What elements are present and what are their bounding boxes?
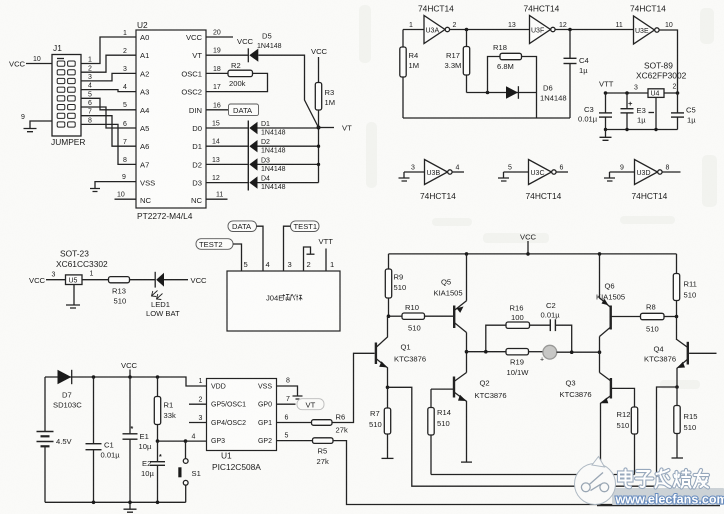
node R17/D6 xyxy=(486,91,490,95)
wire U2 D2 xyxy=(206,163,248,165)
node gnd rail E3 xyxy=(625,128,628,131)
wire pin1 xyxy=(325,249,327,272)
wire osc bottom rail xyxy=(403,117,570,119)
wire U3A out to U3F xyxy=(450,29,530,31)
wire U2 D1 xyxy=(206,145,248,147)
resistor R13 510 xyxy=(109,277,130,306)
scan ghost smudges xyxy=(359,5,717,389)
node bottom E1 xyxy=(128,501,132,505)
wire R14 R12 tie xyxy=(431,474,635,476)
ground J1 pin9 xyxy=(24,129,37,132)
wire U3F out to U3E xyxy=(555,29,633,31)
node VTT left xyxy=(604,91,608,95)
node motor right xyxy=(598,350,602,354)
wire J1-7 to U2 A6 xyxy=(81,116,136,147)
transistor Q4 KTC3876 xyxy=(644,317,688,388)
U2 pin numbers left xyxy=(117,30,127,199)
diode D5 1N4148 xyxy=(248,32,281,63)
node E3 top xyxy=(625,91,629,95)
ground VTT filter xyxy=(600,130,612,141)
wire U5 to R13 xyxy=(82,279,109,281)
stub U2 NC pin10 xyxy=(115,198,137,200)
J1 wire numbers xyxy=(88,57,92,125)
wire feedback bottom xyxy=(467,92,537,94)
node rail C1 xyxy=(92,375,96,379)
capacitor C3 0.01u xyxy=(578,93,612,130)
wire power bottom rail xyxy=(45,501,186,503)
resistor R7 510 xyxy=(369,387,391,458)
watermark band xyxy=(612,488,724,505)
wire VCC tick xyxy=(129,370,131,378)
wire power top rail xyxy=(45,377,207,386)
wire VTT gnd rail xyxy=(606,129,678,131)
wire U2 VSS pin9 xyxy=(95,182,136,188)
ground U2 VSS xyxy=(90,189,100,192)
wire pin2 xyxy=(304,247,311,271)
wire R16 branch xyxy=(486,325,506,352)
stub U2 pin16 DIN xyxy=(206,109,228,111)
wire J1-3 to U2 A2 xyxy=(81,73,136,81)
inverter U3A 74HCT14 xyxy=(418,4,454,44)
wire GP3 line xyxy=(158,440,207,442)
wire R19 line xyxy=(467,351,507,353)
wire D3 out xyxy=(258,163,319,165)
node R9 R10 xyxy=(387,314,391,318)
wire J1-8 to U2 A7 xyxy=(81,124,136,164)
inverter U3C 74HCT14 xyxy=(498,160,568,202)
node rail Q5 xyxy=(465,252,469,256)
diode D3 1N4148 xyxy=(249,157,285,173)
resistor R12 510 xyxy=(617,407,638,475)
wire TEST1 to pin3 xyxy=(284,226,291,271)
node rail E1 xyxy=(128,375,132,379)
node bottom C1 xyxy=(92,501,96,505)
node rail R1 xyxy=(156,375,160,379)
label TEST1 xyxy=(291,221,320,232)
wire diode bus xyxy=(318,128,320,183)
label minus E3 xyxy=(649,112,655,114)
wire U1 GP2 to R5 xyxy=(277,440,313,442)
regulator U4 SOT-89 XC62FP3002 xyxy=(636,61,687,81)
J1 labels xyxy=(9,43,85,147)
ground U1 VSS xyxy=(293,396,303,399)
wire R5 long bottom wire xyxy=(333,441,717,505)
node S1 branch xyxy=(184,439,188,443)
transistor Q6 KIA1505 xyxy=(596,282,625,337)
transistor Q3 KTC3876 xyxy=(560,373,611,467)
node C4 tap xyxy=(568,28,572,32)
resistor R19 10/1W xyxy=(506,349,529,378)
resistor R15 510 xyxy=(674,387,698,458)
diode D2 1N4148 xyxy=(249,139,285,155)
wire U3A input xyxy=(403,29,424,31)
watermark fan logo xyxy=(575,457,616,505)
ground power rail xyxy=(124,502,137,512)
wire U3E out down to U4 xyxy=(659,30,677,93)
stub U1 pin3 xyxy=(189,422,207,424)
node U4 out xyxy=(676,91,680,95)
wire R2 to OSC2 xyxy=(206,73,268,91)
inverter U3D 74HCT14 xyxy=(604,160,681,202)
resistor R3 1M xyxy=(315,57,335,128)
wire R13 to LED1 xyxy=(130,279,156,281)
label VT xyxy=(297,399,324,410)
node Q4 emitter xyxy=(675,385,679,389)
transistor Q1 KTC3876 xyxy=(376,316,426,387)
wire Q1 emitter to Q4 emitter xyxy=(388,387,678,486)
resistor R1 33k xyxy=(154,377,176,441)
stub U2 pin11 NC xyxy=(206,198,228,200)
U2 pin numbers right xyxy=(212,30,223,199)
node rail VCC xyxy=(526,252,530,256)
receiver board J04E xyxy=(227,271,340,331)
wire bridge VCC rail xyxy=(389,253,677,255)
detector U5 box xyxy=(66,275,83,285)
ground R7 xyxy=(382,457,394,459)
diode D4 1N4148 xyxy=(249,176,285,192)
ground pin2 xyxy=(307,253,315,255)
connector J1 xyxy=(52,55,81,137)
wire U2 D3 xyxy=(206,182,248,184)
inverter U3B 74HCT14 xyxy=(399,160,465,202)
ground Q3 emitter xyxy=(595,466,606,468)
inverter U3E 74HCT14 xyxy=(630,4,666,45)
wire R6 to Q1 base xyxy=(332,353,375,422)
node R1 bottom xyxy=(156,439,160,443)
node motor left xyxy=(465,350,469,354)
diode D1 1N4148 xyxy=(248,121,285,191)
node osc A xyxy=(465,28,469,32)
resistor R16 100 xyxy=(506,304,530,329)
IC U2 PT2272-M4/L4 xyxy=(136,20,206,221)
wire J1-2 to U2 A1 xyxy=(81,55,136,72)
ground U5 xyxy=(66,305,80,308)
label DATA xyxy=(229,104,259,116)
wire D1 out xyxy=(258,127,319,129)
paper noise overlay xyxy=(0,0,1,1)
wire U4 gnd pin xyxy=(655,97,657,129)
wire VCC tick bridge xyxy=(527,241,529,254)
transistor Q5 KIA1505 xyxy=(434,278,467,333)
wire Q6 base to R8 xyxy=(611,316,641,318)
ground Q2 emitter xyxy=(461,461,472,463)
resistor R2 200k xyxy=(228,61,253,88)
label DATA bottom xyxy=(228,221,257,232)
capacitor E2 10u electrolytic xyxy=(141,441,165,502)
resistor R4 1M xyxy=(400,30,419,119)
LED LED1 LOW BAT xyxy=(146,272,180,318)
wire DATA to pin4 xyxy=(257,226,264,271)
node gnd rail left xyxy=(604,128,607,131)
node R11 R8 xyxy=(675,315,679,319)
capacitor C5 1u xyxy=(671,93,696,130)
inverter U3F 74HCT14 xyxy=(524,4,560,44)
watermark text elecfans chinese xyxy=(619,470,708,488)
resistor R18 6.8M xyxy=(493,43,522,71)
label TEST2 xyxy=(196,239,233,250)
wire Q3 base to R12 xyxy=(611,388,635,407)
wire VCC to U5 xyxy=(46,279,66,281)
wire U1 VSS xyxy=(277,386,298,396)
wire Q4 base stub xyxy=(689,352,716,354)
stub U2 pin18 OSC1 xyxy=(206,72,228,74)
wire R18 branch left xyxy=(488,57,501,93)
stub U1 pin2 xyxy=(189,403,207,405)
wire J1-6 to U2 A5 xyxy=(81,107,136,128)
wire U2 pin19 VT xyxy=(206,54,248,56)
capacitor E1 10u electrolytic xyxy=(123,377,152,502)
node Q1 emitter xyxy=(386,386,390,390)
node C2 right xyxy=(570,350,574,354)
battery 4.5V xyxy=(37,377,73,502)
node R16 R19 xyxy=(484,350,488,354)
resistor R8 510 xyxy=(641,303,677,334)
motor M xyxy=(529,345,600,363)
capacitor C4 1u xyxy=(564,30,589,119)
MCU U1 PIC12C508A xyxy=(207,379,277,473)
wire TEST2 to pin5 xyxy=(233,244,242,271)
wire D2 out xyxy=(258,145,319,147)
detector U5 SOT-23 XC61CC3302 xyxy=(56,249,108,270)
resistor R10 510 xyxy=(389,303,454,333)
resistor R5 27k xyxy=(313,438,334,466)
switch S1 xyxy=(178,441,200,502)
resistor R14 510 xyxy=(428,389,451,474)
resistor R17 3.3M xyxy=(445,30,470,93)
wire bottom overlay across watermark xyxy=(597,505,720,507)
diode D7 SD103C xyxy=(53,370,82,410)
node gnd rail U4 xyxy=(654,128,657,131)
wire D5 to R3 node xyxy=(258,55,318,127)
node diode bus junctions xyxy=(317,126,321,167)
wire Q2 base xyxy=(431,388,454,390)
ground R15 xyxy=(672,457,684,459)
node bottom E2 xyxy=(156,501,160,505)
wire VT out xyxy=(319,127,335,129)
J1 pads xyxy=(57,61,75,127)
wire D4 out xyxy=(258,182,319,184)
diode D6 1N4148 xyxy=(506,84,567,103)
wire J1 pin10 VCC xyxy=(26,63,52,65)
wire bridge left vertical xyxy=(466,254,468,373)
wire bridge right vertical xyxy=(599,254,601,373)
wire J1 pin9 xyxy=(30,121,52,128)
resistor R11 510 xyxy=(673,254,697,317)
regulator U4 box xyxy=(648,89,664,98)
node rail Q6 xyxy=(598,252,602,256)
wire VTT rail xyxy=(606,92,649,94)
wire U5 gnd xyxy=(73,285,75,305)
wire U1 GP0 VT xyxy=(277,403,296,405)
wire U2 pin20 VCC xyxy=(206,36,233,38)
transistor Q2 KTC3876 xyxy=(454,373,507,462)
wire U2 D0 xyxy=(206,127,248,129)
resistor R9 510 xyxy=(385,254,406,316)
wire U4 out xyxy=(664,92,678,94)
wire LED1 to VCC xyxy=(164,279,188,281)
wire R18 to right side xyxy=(522,57,537,119)
wire U1 GP1 to R6 xyxy=(277,422,312,424)
capacitor E3 1u electrolytic xyxy=(621,93,647,130)
capacitor C1 0.01u xyxy=(86,377,121,502)
wire J1-1 to U2 A0 xyxy=(81,37,136,64)
wire J1-4 to U2 A3 xyxy=(81,90,136,92)
resistor R6 27k xyxy=(312,413,348,435)
capacitor C2 0.01u xyxy=(530,301,572,352)
wire J1-5 to U2 A4 xyxy=(81,98,136,110)
